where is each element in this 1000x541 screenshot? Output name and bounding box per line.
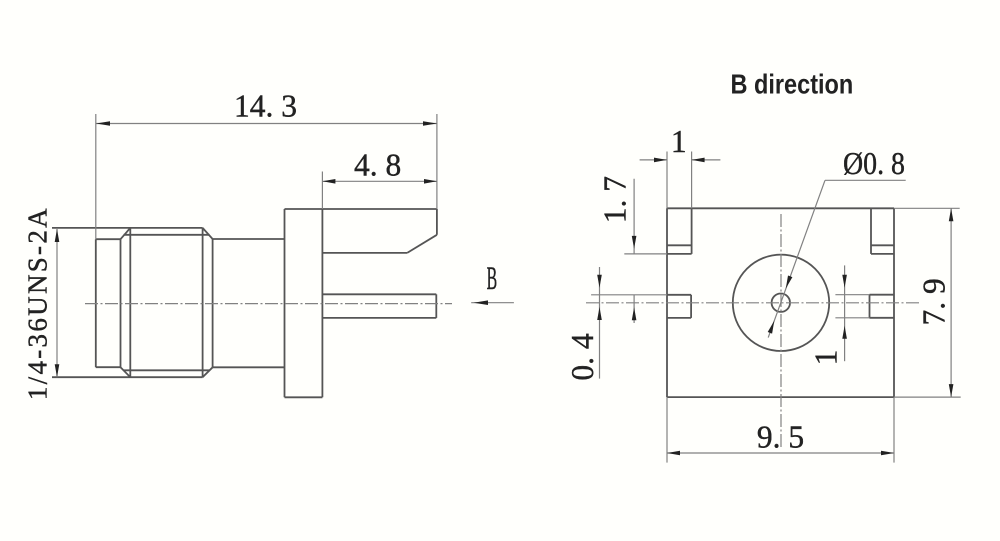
- side view: barrel left edge: [95, 239, 97, 367]
- B view: middle-right tab top edge: [870, 294, 895, 296]
- side view: hex chamfer bottom-left: [121, 367, 131, 377]
- B view: top-left leg step line: [667, 244, 692, 246]
- side view: barrel top edge: [96, 238, 121, 240]
- B view: plate right edge: [893, 208, 895, 397]
- thread dimension arrow down: [55, 364, 60, 377]
- svg-text:4. 8: 4. 8: [354, 148, 401, 183]
- side view: hex chamfer top-right: [203, 228, 213, 239]
- side view: collar bottom edge: [213, 366, 285, 368]
- dimension 4.8 left extension: [321, 172, 323, 210]
- svg-text:Ø0. 8: Ø0. 8: [843, 146, 905, 181]
- side view: hex inner top line: [124, 234, 210, 236]
- middle-right tab top extension: [835, 294, 869, 296]
- leader 0.8 arrow upper: [786, 276, 793, 289]
- B view: top-left leg right extension above: [691, 152, 693, 209]
- middle-right tab bottom extension: [835, 317, 869, 319]
- side view: pin top edge: [322, 293, 436, 295]
- B view: middle-right tab bottom edge: [870, 317, 895, 319]
- side view: thread dimension line: [56, 229, 58, 377]
- dimension 9.5 right extension: [893, 397, 895, 463]
- side view: top leg end face: [436, 209, 438, 235]
- dimension 14.3 right extension: [436, 114, 438, 209]
- dimension 1.7 arrow down: [632, 236, 637, 249]
- dimension 9.5 arrow left: [667, 451, 680, 456]
- side view: hex inner bottom line: [124, 369, 210, 371]
- side view: barrel bottom edge: [96, 366, 121, 368]
- dimension 7.9 arrow up: [949, 208, 954, 221]
- dimension 1 right arrow down: [842, 275, 847, 288]
- svg-text:B direction: B direction: [731, 70, 854, 100]
- side view: pin end face: [435, 294, 437, 318]
- dimension 1 top right segment: [692, 159, 721, 161]
- B view: top-left leg left extension above: [666, 152, 668, 209]
- side view: collar top edge: [213, 238, 285, 240]
- B view: pin circle: [772, 294, 790, 312]
- dimension 9.5 line: [667, 452, 894, 454]
- side view: hex top edge with left extension: [52, 227, 203, 229]
- B view: middle-left tab top edge: [667, 294, 691, 296]
- side view: hex right flat line: [202, 228, 204, 377]
- dimension 1 top arrow left: [692, 158, 705, 163]
- thread dimension arrow up: [55, 229, 60, 242]
- side view: hex right face edge: [212, 239, 214, 367]
- dimension 1.7 line: [633, 179, 635, 323]
- dimension 14.3 line: [96, 123, 437, 125]
- svg-text:1: 1: [671, 124, 687, 159]
- dimension 1.7 arrow up: [632, 307, 637, 320]
- B view: top-left leg right edge: [691, 208, 693, 254]
- dimension 1 top arrow right: [654, 158, 667, 163]
- side view: top leg chamfer: [407, 235, 437, 253]
- B view: plate bottom edge: [667, 396, 894, 398]
- side view: flange left edge: [284, 209, 286, 397]
- svg-text:1: 1: [809, 350, 844, 366]
- side view: pin bottom edge: [322, 317, 436, 319]
- dimension 1 right arrow up: [842, 326, 847, 339]
- dimension 0.4 arrow down: [597, 275, 602, 288]
- dimension 1.7 lower extension: [624, 253, 667, 255]
- B view: middle-left tab bottom edge: [667, 317, 691, 319]
- dimension 0.4 arrow up: [597, 307, 602, 320]
- dimension 14.3 arrow left: [96, 121, 110, 125]
- side view: flange right edge: [321, 209, 323, 397]
- svg-text:14. 3: 14. 3: [234, 89, 297, 124]
- B view: top-right leg bottom line: [871, 253, 894, 255]
- B view: horizontal centerline: [586, 302, 920, 304]
- dimension 14.3 arrow right: [423, 121, 437, 125]
- svg-text:0. 4: 0. 4: [565, 333, 600, 381]
- dimension 9.5 arrow right: [881, 451, 894, 456]
- leader 0.8 arrow lower: [768, 321, 775, 334]
- side view: flange bottom edge: [285, 396, 323, 398]
- side view: hex chamfer top-left: [121, 228, 131, 239]
- dimension 4.8 arrow right: [424, 179, 437, 184]
- B view: top-right leg step line: [871, 244, 894, 246]
- dimension 7.9 arrow down: [949, 384, 954, 397]
- svg-text:1. 7: 1. 7: [598, 176, 633, 223]
- dimension 1 top left segment: [640, 159, 667, 161]
- dimension 7.9 line: [950, 208, 952, 397]
- svg-text:7. 9: 7. 9: [916, 278, 951, 325]
- view B arrow line: [471, 302, 514, 304]
- dimension 4.8 line: [322, 180, 437, 182]
- B view: top-right leg left edge: [870, 208, 872, 254]
- B view: plate top edge: [667, 207, 894, 209]
- B view: vertical centerline: [780, 214, 782, 448]
- side view: hex chamfer bottom-right: [203, 367, 213, 377]
- dimension 9.5 left extension: [666, 397, 668, 463]
- B view: middle-right tab left edge: [869, 295, 871, 318]
- side view: hex left flat line: [129, 228, 131, 377]
- side view: centerline: [85, 303, 452, 305]
- side view: top leg bottom edge: [322, 252, 407, 254]
- svg-text:B: B: [487, 260, 498, 297]
- dimension 0.4 line: [599, 267, 601, 379]
- side view: flange and leg top edge: [285, 208, 437, 210]
- side view: hex bottom edge with left extension: [52, 376, 203, 378]
- svg-text:9. 5: 9. 5: [757, 420, 804, 455]
- dimension 1 right line: [844, 265, 846, 361]
- svg-text:1/4-36UNS-2A: 1/4-36UNS-2A: [23, 206, 53, 400]
- B view: middle-left tab right edge: [690, 295, 692, 318]
- dimension 4.8 arrow left: [322, 179, 335, 184]
- view B arrow head: [474, 300, 489, 305]
- middle-left tab top extension: [591, 294, 667, 296]
- side view: barrel right edge: [120, 239, 122, 367]
- B view: plate left edge: [666, 208, 668, 397]
- B view: top-left leg bottom line: [667, 253, 692, 255]
- leader 0.8 horizontal segment: [825, 179, 906, 181]
- B view: body circle: [733, 255, 829, 351]
- leader 0.8 diagonal segment: [768, 180, 825, 337]
- dimension 7.9 bottom extension: [894, 396, 961, 398]
- dimension 14.3 left extension: [95, 114, 97, 239]
- dimension 7.9 top extension: [894, 207, 960, 209]
